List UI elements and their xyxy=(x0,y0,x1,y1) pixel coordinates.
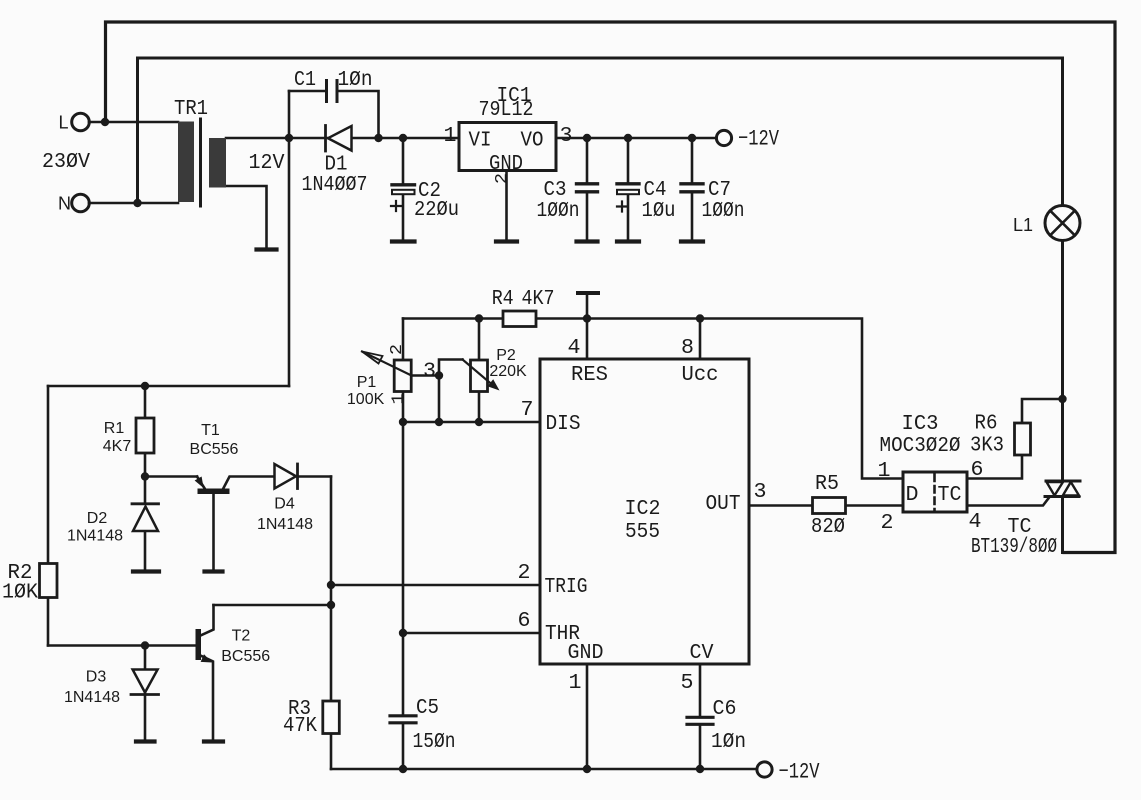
node gnd C5 xyxy=(399,765,407,773)
svg-text:1N4ØØ7: 1N4ØØ7 xyxy=(302,174,368,197)
regulator IC1 79L12 box xyxy=(459,123,556,171)
node C3 xyxy=(583,134,591,142)
svg-text:22Øu: 22Øu xyxy=(414,199,459,222)
node DIS P2 xyxy=(475,418,483,426)
wire D4 cathode to node xyxy=(298,475,332,478)
svg-text:Ucc: Ucc xyxy=(682,364,719,387)
svg-text:555: 555 xyxy=(625,521,660,544)
svg-text:IC3: IC3 xyxy=(902,413,939,436)
wire P2 top lead xyxy=(478,319,481,361)
wire lower supply row xyxy=(48,385,289,388)
svg-text:N: N xyxy=(58,194,71,214)
svg-text:BC556: BC556 xyxy=(190,441,239,458)
svg-text:P2: P2 xyxy=(496,347,516,364)
svg-text:2: 2 xyxy=(881,512,894,535)
wire T1 collector to D4 xyxy=(223,477,275,491)
wire IC1 gnd pin xyxy=(505,170,508,240)
capacitor C6 xyxy=(687,717,713,724)
ground C2 xyxy=(392,239,415,243)
capacitor C4 (polarized) xyxy=(617,182,639,185)
wire mains N rail to lamp xyxy=(138,58,1063,206)
svg-text:DIS: DIS xyxy=(546,413,581,436)
svg-text:1: 1 xyxy=(389,394,408,405)
node R1 top xyxy=(141,382,149,390)
svg-text:2: 2 xyxy=(518,562,531,585)
svg-text:6: 6 xyxy=(971,459,984,482)
svg-text:D: D xyxy=(906,484,919,507)
terminal L xyxy=(72,113,90,131)
svg-text:4K7: 4K7 xyxy=(103,438,132,455)
resistor R6 xyxy=(1015,423,1031,455)
wire RES pin xyxy=(586,319,589,360)
wire C2 branch xyxy=(402,138,405,240)
node L junction xyxy=(101,118,109,126)
svg-text:1: 1 xyxy=(444,125,457,148)
svg-text:TR1: TR1 xyxy=(174,98,208,121)
svg-text:C3: C3 xyxy=(544,179,567,202)
wire T2 base row xyxy=(48,644,196,647)
potentiometer P1 xyxy=(394,360,411,392)
node P2 top xyxy=(475,314,483,322)
node C4 xyxy=(624,134,632,142)
resistor R1 xyxy=(136,418,154,453)
ground D3 xyxy=(136,739,155,743)
diode D3 xyxy=(133,670,158,693)
capacitor C7 xyxy=(681,184,703,192)
svg-text:VI: VI xyxy=(469,130,492,153)
node C1 right xyxy=(374,134,382,142)
wire IC3 pin4 to triac gate xyxy=(967,497,1050,506)
node R6 / lamp line xyxy=(1058,395,1066,403)
node D3/T2 base xyxy=(141,641,149,649)
node gnd C6 xyxy=(696,765,704,773)
node P1 wiper 3 xyxy=(435,371,443,379)
triac TC BT139 xyxy=(1046,480,1080,483)
svg-text:R6: R6 xyxy=(975,413,998,436)
wire lamp to triac xyxy=(1061,241,1064,481)
svg-text:1N4148: 1N4148 xyxy=(257,516,313,533)
terminal -12V (top) xyxy=(716,130,731,145)
wire T2 emitter lead xyxy=(201,656,214,741)
svg-text:4: 4 xyxy=(568,337,581,360)
svg-text:−12V: −12V xyxy=(779,760,821,785)
svg-text:4K7: 4K7 xyxy=(522,288,555,311)
wire C1 top right xyxy=(337,91,379,138)
node DIS mid xyxy=(435,418,443,426)
node RES xyxy=(583,314,591,322)
svg-text:2: 2 xyxy=(493,173,512,184)
svg-text:3: 3 xyxy=(754,481,767,504)
svg-text:VO: VO xyxy=(521,130,544,153)
svg-text:R1: R1 xyxy=(104,420,125,437)
svg-text:1Øn: 1Øn xyxy=(338,69,373,92)
wire secondary bottom to ground xyxy=(226,186,267,247)
svg-text:1ØØn: 1ØØn xyxy=(537,200,580,223)
wire T2 collector lead xyxy=(201,605,214,636)
ground C3 xyxy=(577,239,598,243)
svg-text:C7: C7 xyxy=(708,179,731,202)
node THR xyxy=(399,629,407,637)
wire C1 top left xyxy=(289,90,326,93)
optocoupler IC3 MOC3020 box xyxy=(903,472,967,512)
svg-text:1Øn: 1Øn xyxy=(711,731,746,754)
transistor T2 xyxy=(196,629,202,660)
wire IC1 out rail xyxy=(556,137,717,140)
wire T1 base lead xyxy=(212,493,215,570)
svg-text:CV: CV xyxy=(690,642,714,665)
wire 12V secondary to IC1 pin1 xyxy=(226,137,459,140)
node Ucc xyxy=(696,314,704,322)
svg-text:−12V: −12V xyxy=(738,127,780,152)
svg-text:6: 6 xyxy=(518,610,531,633)
svg-text:C4: C4 xyxy=(644,179,667,202)
svg-text:1ØØn: 1ØØn xyxy=(702,200,745,223)
svg-text:82Ø: 82Ø xyxy=(811,516,845,539)
svg-text:1ØK: 1ØK xyxy=(2,582,38,605)
wire R2 branch left xyxy=(47,386,50,646)
wire C1 left branch / 12V feed down xyxy=(288,91,291,386)
node DIS P1 xyxy=(399,418,407,426)
wire C3 branch xyxy=(586,138,589,240)
node C7 xyxy=(688,134,696,142)
svg-text:15Øn: 15Øn xyxy=(413,731,456,754)
wire P1 top lead xyxy=(402,319,405,361)
wire D2 branch xyxy=(144,477,147,571)
svg-text:79L12: 79L12 xyxy=(479,99,534,122)
svg-text:D2: D2 xyxy=(87,510,108,527)
svg-text:1: 1 xyxy=(878,460,891,483)
diode D1 xyxy=(324,126,327,152)
svg-text:L1: L1 xyxy=(1013,215,1033,235)
terminal N xyxy=(72,194,90,212)
wire RES rail stub xyxy=(586,294,589,319)
wire THR row xyxy=(403,632,540,635)
wire L terminal to TR1 xyxy=(89,121,178,124)
lamp L1 xyxy=(1045,206,1080,241)
wire N terminal to TR1 xyxy=(89,202,178,205)
rail stub bar above RES xyxy=(578,291,598,295)
resistor R4 xyxy=(503,311,536,327)
potentiometer P2 xyxy=(471,360,488,392)
svg-text:12V: 12V xyxy=(249,152,285,175)
wire TRIG row xyxy=(331,584,540,587)
terminal -12V (bottom) xyxy=(757,762,772,777)
wire Ucc pin xyxy=(699,319,702,360)
wire IC3 pin6 to R6 xyxy=(967,455,1022,479)
node T2 collector xyxy=(327,601,335,609)
svg-text:47K: 47K xyxy=(283,715,317,738)
svg-text:3: 3 xyxy=(560,125,573,148)
svg-text:C5: C5 xyxy=(416,697,439,720)
wire CV pin / C6 xyxy=(699,664,702,769)
svg-text:C1: C1 xyxy=(294,69,316,92)
wire C7 branch xyxy=(691,138,694,240)
timer IC2 555 box xyxy=(540,359,749,664)
svg-text:RES: RES xyxy=(571,364,608,387)
svg-text:R5: R5 xyxy=(815,473,839,496)
capacitor C2 (polarized) xyxy=(392,183,415,186)
svg-text:1: 1 xyxy=(569,672,582,695)
wire P1 bottom lead xyxy=(402,392,405,423)
svg-text:P1: P1 xyxy=(357,374,377,391)
svg-text:TRIG: TRIG xyxy=(545,576,588,599)
wire R1 branch xyxy=(144,386,147,477)
wire C5 column xyxy=(402,422,405,769)
wire D3 branch xyxy=(144,646,147,741)
node gnd IC2 xyxy=(583,765,591,773)
wire DIS row xyxy=(403,421,540,424)
ground T1 xyxy=(205,569,223,573)
wire triac to bottom corner xyxy=(1061,497,1064,553)
labels group (sans font) xyxy=(58,113,1033,706)
wire outer mains loop (L line) xyxy=(106,22,1116,553)
svg-text:3K3: 3K3 xyxy=(970,435,1004,458)
wire T1 emitter row xyxy=(145,475,197,478)
wire R6 top to lamp line xyxy=(1022,399,1063,423)
ground IC1 xyxy=(496,239,517,243)
svg-text:BT139/8ØØ: BT139/8ØØ xyxy=(971,536,1057,559)
svg-text:L: L xyxy=(58,113,68,133)
ground TR1 secondary xyxy=(257,247,277,251)
wire P2 bottom lead xyxy=(478,392,481,423)
wire OUT row xyxy=(749,504,903,507)
wire P1 wiper node3 xyxy=(412,374,440,377)
svg-text:MOC3Ø2Ø: MOC3Ø2Ø xyxy=(880,435,961,458)
resistor R3 xyxy=(323,701,340,734)
node C1 left / 12V xyxy=(285,134,293,142)
node R1/D2/T1 xyxy=(141,472,149,480)
svg-text:100K: 100K xyxy=(347,391,385,408)
svg-text:D4: D4 xyxy=(274,495,295,512)
ground C7 xyxy=(681,239,703,243)
svg-text:4: 4 xyxy=(969,511,982,534)
wire R4 rail to IC3 pin1 xyxy=(403,319,903,479)
svg-text:TC: TC xyxy=(938,484,962,507)
svg-text:GND: GND xyxy=(489,153,523,176)
svg-text:8: 8 xyxy=(681,337,694,360)
svg-text:1N4148: 1N4148 xyxy=(64,689,120,706)
wire C4 branch xyxy=(627,138,630,240)
resistor R2 xyxy=(40,564,58,598)
svg-text:23ØV: 23ØV xyxy=(42,151,90,174)
capacitor C5 xyxy=(390,716,416,723)
ground T2 xyxy=(204,739,223,743)
svg-text:GND: GND xyxy=(568,642,604,665)
diode D2 xyxy=(133,507,158,532)
capacitor C3 xyxy=(577,184,598,192)
svg-text:R4: R4 xyxy=(492,288,514,311)
svg-text:T2: T2 xyxy=(232,627,251,644)
ground D2 xyxy=(133,569,159,573)
wire node3 riser xyxy=(439,360,463,423)
svg-text:OUT: OUT xyxy=(706,493,741,516)
svg-text:2: 2 xyxy=(388,344,407,355)
svg-text:1N4148: 1N4148 xyxy=(67,527,123,544)
wire bottom rail xyxy=(331,768,757,771)
resistor R5 xyxy=(813,498,846,514)
svg-text:5: 5 xyxy=(681,672,694,695)
svg-text:BC556: BC556 xyxy=(221,648,270,665)
transformer TR1 xyxy=(178,122,194,203)
svg-text:7: 7 xyxy=(521,399,534,422)
wire node column D4/R3 xyxy=(330,477,333,770)
ground C4 xyxy=(617,239,639,243)
wire T2 collector row xyxy=(214,604,332,607)
capacitor C1 xyxy=(327,81,338,102)
node C2 xyxy=(399,134,407,142)
svg-text:T1: T1 xyxy=(201,422,220,439)
node TRIG xyxy=(327,581,335,589)
svg-text:IC2: IC2 xyxy=(625,498,661,521)
svg-text:1Øu: 1Øu xyxy=(642,200,676,223)
svg-text:220K: 220K xyxy=(489,363,527,380)
svg-text:C6: C6 xyxy=(713,698,737,721)
transistor T1 xyxy=(198,489,230,495)
diode D4 xyxy=(275,464,297,489)
svg-text:3: 3 xyxy=(423,361,436,384)
svg-text:D3: D3 xyxy=(86,668,107,685)
wire GND pin IC2 xyxy=(586,664,589,769)
node N junction xyxy=(133,199,141,207)
